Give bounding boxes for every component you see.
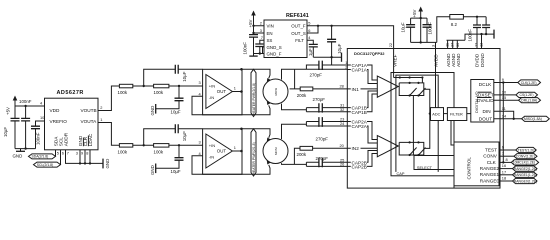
- node RANGE0 / flag RANGE0(1.2E): [499, 176, 537, 184]
- svg-text:CLK(1.2E): CLK(1.2E): [521, 81, 537, 85]
- svg-text:SELECT: SELECT: [417, 165, 433, 170]
- svg-text:3: 3: [260, 28, 262, 33]
- wire sensor1 to 200k / IN1: [290, 69, 301, 89]
- svg-text:REF6141: REF6141: [286, 13, 309, 19]
- wire OUT_F/OUT_S rail to VREF pin: [307, 21, 394, 49]
- wire feedback ch1 to sensor: [203, 105, 270, 115]
- wire heater drive ch1: [242, 69, 270, 78]
- internal wire switches to ADC: [424, 89, 431, 148]
- svg-text:TEST(1.2E): TEST(1.2E): [518, 148, 536, 152]
- capacitor C 100nF (AVDD): [423, 18, 433, 42]
- svg-text:+5V: +5V: [6, 107, 11, 115]
- wire feedback ch2 to sensor: [203, 165, 270, 175]
- node DCLK / flag CLK(1.2E): [494, 77, 541, 85]
- svg-text:6: 6: [62, 151, 64, 156]
- flag HEATER PWR(2/1.8) ch2: [251, 129, 256, 176]
- svg-text:CONTROL: CONTROL: [467, 157, 472, 180]
- svg-text:FILTER: FILTER: [450, 113, 463, 117]
- svg-text:28: 28: [340, 84, 344, 89]
- svg-text:RANGE0(1.2E): RANGE0(1.2E): [514, 179, 537, 183]
- node DOUT / flag MISO(1.8A): [494, 113, 550, 121]
- svg-text:100k: 100k: [154, 150, 164, 155]
- internal switch cell ch2: [398, 141, 425, 156]
- op-amp U3 (heater driver ch2): [199, 129, 243, 175]
- svg-text:100nF: 100nF: [468, 29, 473, 42]
- capacitor C 10uF (REF out): [327, 26, 342, 57]
- svg-text:RANGE1(1.2E): RANGE1(1.2E): [514, 173, 537, 177]
- svg-text:100k: 100k: [118, 90, 128, 95]
- power +5V (REF supply): [248, 11, 256, 35]
- svg-text:DXSET: DXSET: [478, 93, 494, 98]
- internal cap/switch box outer (CAP): [391, 73, 454, 176]
- svg-text:-IN: -IN: [209, 155, 214, 160]
- IC left pin labels: [352, 63, 368, 169]
- wire -IN feedback loop ch2: [192, 156, 203, 175]
- svg-text:8: 8: [506, 157, 508, 162]
- svg-text:VDD: VDD: [50, 108, 61, 113]
- svg-text:FILT: FILT: [295, 38, 304, 43]
- svg-text:ADC: ADC: [432, 113, 440, 117]
- node RANGE1 / flag RANGE1(1.2E): [499, 169, 537, 177]
- internal cap/switch box inner: [396, 75, 438, 172]
- wire CAP1A bias from REF gnd rail: [330, 56, 332, 65]
- resistor R 8.2 (DVDD filter): [437, 15, 486, 43]
- wire AGND tie: [447, 33, 483, 49]
- svg-text:6: 6: [308, 28, 310, 33]
- resistor R 100k (ch1 b): [154, 84, 169, 95]
- internal amp A1: [377, 76, 398, 97]
- capacitor C 100nF (REF in): [242, 33, 258, 55]
- svg-text:9: 9: [502, 77, 504, 82]
- resistor R 200k (ch1): [297, 87, 313, 98]
- svg-text:100k: 100k: [154, 90, 164, 95]
- svg-text:16: 16: [502, 163, 506, 168]
- svg-text:+IN: +IN: [209, 83, 215, 88]
- node op-amp1 output: [240, 90, 243, 93]
- svg-text:DCLK: DCLK: [479, 82, 492, 87]
- svg-text:100k: 100k: [118, 150, 128, 155]
- wire VOUTB to channel-1 rail: [98, 86, 119, 111]
- wire heater drive ch2: [242, 129, 270, 138]
- svg-text:7: 7: [261, 35, 263, 40]
- capacitor C 1uF (SS): [255, 35, 264, 53]
- svg-text:GND: GND: [150, 165, 155, 175]
- svg-text:-IN: -IN: [209, 95, 214, 100]
- wire VOUTA to channel-2 rail: [98, 117, 119, 145]
- ground (DAC digital): [103, 159, 110, 169]
- svg-text:SDA(2/1.8): SDA(2/1.8): [32, 155, 49, 159]
- svg-text:10µF: 10µF: [3, 127, 8, 137]
- svg-text:AGND: AGND: [456, 53, 461, 67]
- svg-text:OUT_S: OUT_S: [291, 31, 306, 36]
- wire GND_S / GND_F tie: [254, 47, 265, 54]
- internal switch cell ch1: [394, 76, 426, 96]
- svg-text:+IN: +IN: [209, 143, 215, 148]
- wire sensor1 bottom to CAP1B: [282, 104, 307, 110]
- svg-text:MOSI: MOSI: [274, 147, 278, 155]
- wire to +IN ch1: [169, 85, 203, 87]
- svg-text:CAP2B: CAP2B: [352, 165, 367, 170]
- svg-text:2: 2: [100, 105, 102, 110]
- capacitor C 10uF (AVDD): [400, 18, 415, 42]
- svg-text:10µF: 10µF: [400, 22, 405, 32]
- svg-text:MISO(1.8A): MISO(1.8A): [524, 117, 542, 121]
- svg-text:22: 22: [388, 43, 393, 47]
- wire sensor2 to 200k / IN2: [294, 148, 300, 164]
- capacitor C 100nF (DVDD): [468, 17, 482, 49]
- capacitor C 1uF (FILT): [307, 35, 318, 57]
- svg-text:RANGE0: RANGE0: [480, 178, 500, 183]
- svg-text:100nF: 100nF: [428, 22, 433, 35]
- svg-text:5: 5: [57, 151, 59, 156]
- svg-text:HEATER PWR(2/1.8): HEATER PWR(2/1.8): [252, 83, 256, 115]
- svg-text:270pF: 270pF: [316, 136, 329, 141]
- internal select line: [412, 96, 414, 156]
- svg-text:5: 5: [308, 21, 310, 26]
- svg-text:VOUTA: VOUTA: [81, 119, 98, 124]
- svg-text:DGND: DGND: [480, 53, 485, 67]
- internal input loops ch1: [347, 65, 377, 112]
- wire +5V rail to VDD: [15, 105, 45, 107]
- node RANGE2 / flag RANGE2(1.2E): [499, 163, 537, 171]
- svg-text:EN: EN: [267, 31, 273, 36]
- svg-text:18: 18: [502, 176, 506, 181]
- ground (DVDD): [493, 30, 495, 39]
- node DVALID / flag DRL(1.8A): [494, 95, 541, 103]
- wire +5V to VIN / EN: [252, 21, 264, 35]
- svg-text:GND: GND: [13, 153, 23, 158]
- svg-text:11: 11: [502, 106, 506, 111]
- wire CAP box to IC bottom edge: [453, 176, 455, 188]
- capacitor C 100nF (VREFIO): [31, 121, 45, 149]
- wire ADDR/GND/CLR/LDAC to ground: [66, 150, 104, 165]
- svg-text:VIN: VIN: [267, 24, 274, 29]
- resistor R 200k (ch2): [297, 146, 313, 157]
- svg-text:7: 7: [502, 151, 504, 156]
- svg-text:200k: 200k: [297, 152, 307, 157]
- svg-text:3: 3: [431, 45, 436, 47]
- block DIGITAL I/O: [471, 80, 494, 123]
- wire sensor2 bottom to CAP2B: [282, 163, 307, 164]
- sensor probe 1 (capacitive sensor w/ heater): [263, 78, 288, 105]
- svg-text:7: 7: [67, 151, 69, 156]
- svg-text:OUT: OUT: [217, 89, 227, 94]
- svg-text:GND_F: GND_F: [267, 51, 282, 56]
- svg-text:IN2: IN2: [352, 146, 360, 151]
- op-amp U1 AD5627R DAC: [45, 90, 99, 150]
- svg-text:DOUT: DOUT: [479, 117, 492, 122]
- svg-text:10µF: 10µF: [171, 110, 181, 115]
- svg-text:DVALID: DVALID: [477, 98, 494, 103]
- node CLK / flag 10MCLK(1.2E): [499, 157, 539, 165]
- internal amp A2: [377, 136, 398, 157]
- svg-text:3: 3: [199, 80, 201, 85]
- internal wire FILTER to DIGITAL I/O: [467, 113, 471, 115]
- node DXSET / flag CS(1.2E): [494, 90, 538, 98]
- capacitor C (DGND): [482, 17, 490, 34]
- wire -IN feedback loop ch1: [192, 96, 203, 115]
- svg-text:GND: GND: [150, 106, 155, 116]
- internal AVDD feed to ADC: [435, 49, 437, 108]
- node op-amp2 output: [240, 150, 243, 153]
- svg-text:10MCLK(1.2E): 10MCLK(1.2E): [513, 161, 535, 165]
- svg-text:VREF: VREF: [392, 54, 397, 67]
- svg-text:9: 9: [81, 151, 83, 156]
- svg-text:RANGE2: RANGE2: [480, 166, 500, 171]
- svg-text:SCL(2/1.8): SCL(2/1.8): [37, 163, 53, 167]
- sensor probe 2 (capacitive sensor w/ heater): [263, 138, 288, 165]
- svg-text:10µF: 10µF: [182, 131, 187, 141]
- power +5V (IC analog supply): [412, 7, 423, 44]
- wire 200k to IN1: [313, 88, 348, 90]
- block CONTROL: [454, 142, 499, 186]
- svg-text:CONV: CONV: [483, 154, 497, 159]
- wire / node after R: [133, 85, 154, 87]
- wire DCLK to CLK: [502, 83, 504, 163]
- svg-text:VREFIO: VREFIO: [50, 119, 68, 124]
- capacitor C 10uF (DAC supply): [3, 106, 20, 149]
- svg-text:VOUTB: VOUTB: [81, 108, 97, 113]
- svg-text:CONV(1.2E): CONV(1.2E): [516, 155, 535, 159]
- node SDA with flag SDA(2/1.8): [29, 150, 59, 159]
- op-amp U2 (heater driver ch1): [199, 69, 243, 115]
- capacitor C 270pF CAP1B: [306, 97, 347, 113]
- svg-text:GND: GND: [105, 159, 110, 169]
- svg-text:DIN: DIN: [483, 109, 491, 114]
- IC U5 CDC DOC3127QFP32 outline: [347, 49, 500, 189]
- svg-text:10µF: 10µF: [171, 169, 181, 174]
- svg-text:AD5627R: AD5627R: [57, 90, 84, 96]
- svg-text:CAP: CAP: [397, 171, 405, 176]
- svg-text:SS: SS: [267, 38, 273, 43]
- block FILTER: [444, 108, 467, 121]
- svg-text:1: 1: [234, 145, 236, 150]
- svg-text:AVDD: AVDD: [434, 54, 439, 67]
- ground (REF input side): [249, 54, 257, 57]
- svg-text:270pF: 270pF: [316, 156, 329, 161]
- svg-text:RANGE2(1.2E): RANGE2(1.2E): [514, 167, 537, 171]
- svg-text:DOC3127QFP32: DOC3127QFP32: [354, 51, 385, 56]
- svg-text:CAP1A: CAP1A: [352, 68, 368, 73]
- wire bottom AVDD rail: [411, 41, 437, 43]
- capacitor C 270pF CAP2A: [306, 117, 347, 142]
- IC top pins VREF/AVDD/AGND/DVDD/DGND: [392, 42, 485, 67]
- svg-text:200k: 200k: [297, 93, 307, 98]
- block ADC: [431, 108, 444, 121]
- capacitor C 10uF to GND ch1: [156, 86, 184, 115]
- capacitor C 270pF CAP2B: [306, 156, 347, 167]
- svg-text:3: 3: [199, 140, 201, 145]
- svg-text:CAP2A: CAP2A: [352, 124, 368, 129]
- resistor R 100k (ch2 a): [118, 144, 133, 155]
- voltage reference U4 REF6141: [264, 13, 309, 58]
- svg-text:100nF: 100nF: [19, 99, 32, 104]
- ground (ch2 cap): [150, 164, 156, 176]
- svg-text:32: 32: [340, 107, 344, 112]
- svg-text:HEATER PWR(2/1.8): HEATER PWR(2/1.8): [252, 142, 256, 174]
- svg-text:CLK: CLK: [487, 160, 497, 165]
- wire AVDD pin stub: [435, 42, 437, 48]
- internal VREF line: [393, 49, 395, 78]
- svg-text:10µF: 10µF: [182, 71, 187, 81]
- svg-text:1: 1: [100, 117, 102, 122]
- svg-text:2: 2: [260, 21, 262, 26]
- internal input loops ch2: [347, 122, 377, 167]
- capacitor C 100nF (DAC supply): [19, 99, 32, 149]
- svg-text:DRL(1.8A): DRL(1.8A): [521, 99, 537, 103]
- svg-text:270pF: 270pF: [313, 97, 326, 102]
- node CONV / flag CONV(1.2E): [499, 151, 537, 159]
- capacitor C 10uF to GND ch2: [156, 145, 184, 174]
- svg-text:1µF: 1µF: [308, 48, 313, 56]
- svg-text:OUT: OUT: [217, 149, 227, 154]
- svg-text:TEST: TEST: [485, 147, 497, 152]
- node SCL with flag SCL(2/1.8): [34, 150, 64, 167]
- wire top cap rail: [411, 17, 427, 19]
- svg-text:26: 26: [340, 162, 344, 167]
- flag HEATER PWR(2/1.8) ch1: [251, 69, 256, 116]
- wire REF ground rail: [313, 56, 341, 58]
- capacitor C 10uF feedback ch2: [144, 124, 203, 145]
- svg-text:RANGE1: RANGE1: [480, 172, 500, 177]
- ground (DAC caps): [13, 149, 26, 159]
- wire / node after R: [133, 144, 154, 146]
- svg-text:IN1: IN1: [352, 87, 360, 92]
- svg-text:+5V: +5V: [248, 19, 253, 27]
- ground (ch1 cap): [150, 104, 156, 116]
- svg-text:MOSI: MOSI: [274, 88, 278, 96]
- internal box SELECT: [414, 156, 454, 170]
- svg-text:CS(1.2E): CS(1.2E): [520, 93, 534, 97]
- power +5V (DAC supply): [6, 96, 18, 116]
- capacitor C 270pF CAP1A: [295, 60, 348, 77]
- wire 200k to IN2: [313, 147, 348, 149]
- resistor R 100k (ch2 b): [154, 144, 169, 155]
- wire sensor2 top to CAP2A: [282, 124, 307, 139]
- svg-text:270pF: 270pF: [310, 72, 323, 77]
- svg-text:OUT_F: OUT_F: [291, 24, 306, 29]
- wire DGND to ground: [482, 33, 495, 49]
- svg-text:6: 6: [502, 145, 504, 150]
- svg-text:15: 15: [502, 95, 506, 100]
- node TEST / flag TEST(1.2E): [499, 145, 536, 153]
- svg-text:CAP1B: CAP1B: [352, 110, 367, 115]
- svg-text:8.2: 8.2: [451, 22, 458, 27]
- svg-text:17: 17: [502, 169, 506, 174]
- ground (REF output side): [341, 53, 343, 62]
- svg-text:100nF: 100nF: [36, 132, 41, 145]
- wire DIN: [494, 106, 514, 119]
- svg-text:GND_S: GND_S: [267, 45, 282, 50]
- svg-text:3: 3: [76, 151, 78, 156]
- svg-text:ADDR: ADDR: [64, 132, 69, 146]
- wire ground rail: [15, 148, 36, 150]
- wire sensor1 top to CAP1A: [282, 69, 295, 79]
- svg-text:+5V: +5V: [412, 9, 417, 17]
- svg-text:1: 1: [234, 86, 236, 91]
- wire to +IN ch2: [169, 144, 203, 146]
- resistor R 100k (ch1 a): [118, 84, 133, 95]
- svg-text:10µF: 10µF: [337, 43, 342, 53]
- capacitor C 10uF feedback ch1: [144, 65, 203, 86]
- svg-text:8: 8: [86, 151, 88, 156]
- svg-text:100nF: 100nF: [242, 42, 247, 55]
- internal wire FILTER to CONTROL: [451, 121, 454, 146]
